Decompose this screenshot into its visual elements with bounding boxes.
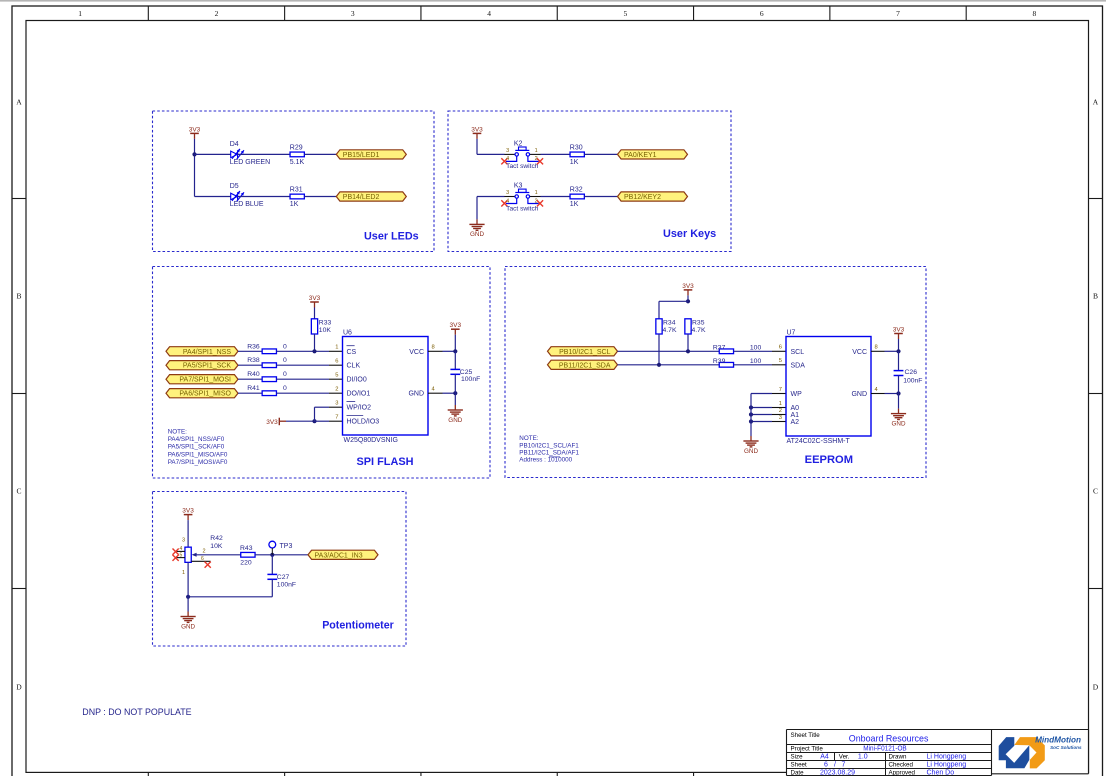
svg-text:1: 1 — [535, 148, 538, 154]
svg-text:GND: GND — [744, 448, 758, 455]
svg-text:User LEDs: User LEDs — [364, 231, 419, 243]
svg-text:PA7/SPI1_MOSI/AF0: PA7/SPI1_MOSI/AF0 — [168, 459, 228, 466]
svg-text:R35: R35 — [692, 320, 705, 327]
svg-text:GND: GND — [448, 417, 462, 424]
svg-text:5: 5 — [624, 9, 628, 18]
svg-text:Tact switch: Tact switch — [506, 205, 539, 212]
svg-text:LED BLUE: LED BLUE — [230, 201, 264, 208]
svg-text:D5: D5 — [230, 183, 239, 190]
svg-text:GND: GND — [181, 623, 195, 630]
svg-text:PB15/LED1: PB15/LED1 — [343, 152, 380, 159]
svg-text:100: 100 — [750, 344, 762, 351]
svg-text:Address : 1010000: Address : 1010000 — [519, 456, 572, 463]
svg-text:3: 3 — [351, 9, 355, 18]
svg-text:VCC: VCC — [852, 349, 867, 356]
svg-text:PB14/LED2: PB14/LED2 — [343, 194, 380, 201]
svg-text:SCL: SCL — [791, 349, 805, 356]
svg-text:PB12/KEY2: PB12/KEY2 — [624, 194, 661, 201]
svg-text:6: 6 — [824, 762, 828, 769]
svg-text:PB11/I2C1_SDA: PB11/I2C1_SDA — [559, 362, 611, 369]
svg-text:R31: R31 — [290, 187, 303, 194]
svg-text:3: 3 — [506, 148, 509, 154]
svg-text:U6: U6 — [343, 329, 352, 336]
svg-text:TP3: TP3 — [280, 543, 293, 550]
svg-text:EEPROM: EEPROM — [805, 454, 853, 466]
svg-text:A4: A4 — [820, 753, 829, 760]
svg-text:7: 7 — [779, 387, 782, 393]
svg-text:3: 3 — [506, 190, 509, 196]
svg-text:LED GREEN: LED GREEN — [230, 159, 270, 166]
svg-text:A: A — [16, 98, 22, 107]
svg-text:PA4/SPI1_NSS/AF0: PA4/SPI1_NSS/AF0 — [168, 436, 225, 443]
svg-text:K2: K2 — [514, 141, 523, 148]
svg-text:7: 7 — [335, 415, 338, 421]
svg-text:3V3: 3V3 — [189, 126, 201, 133]
svg-text:1K: 1K — [570, 201, 579, 208]
svg-text:MindMotion: MindMotion — [1035, 735, 1081, 744]
svg-text:6: 6 — [760, 9, 764, 18]
svg-text:4: 4 — [180, 546, 183, 552]
svg-text:A0: A0 — [791, 405, 800, 412]
svg-text:Sheet Title: Sheet Title — [791, 732, 821, 739]
svg-text:/: / — [834, 762, 836, 769]
svg-text:5: 5 — [180, 552, 183, 558]
svg-text:R32: R32 — [570, 187, 583, 194]
svg-text:2: 2 — [779, 408, 782, 414]
svg-text:8: 8 — [875, 345, 878, 351]
svg-text:PB11/I2C1_SDA/AF1: PB11/I2C1_SDA/AF1 — [519, 449, 579, 456]
svg-text:3V3: 3V3 — [182, 508, 194, 515]
svg-text:220: 220 — [240, 560, 252, 567]
svg-text:5: 5 — [779, 358, 782, 364]
svg-text:NOTE:: NOTE: — [168, 428, 187, 435]
svg-text:Date: Date — [791, 769, 805, 776]
svg-text:100nF: 100nF — [461, 376, 480, 383]
svg-text:100nF: 100nF — [277, 581, 296, 588]
svg-text:R41: R41 — [247, 385, 260, 392]
svg-text:10K: 10K — [210, 543, 223, 550]
svg-text:2023.08.29: 2023.08.29 — [820, 769, 855, 776]
svg-text:1K: 1K — [290, 201, 299, 208]
svg-text:8: 8 — [432, 345, 435, 351]
svg-text:U7: U7 — [787, 329, 796, 336]
svg-text:SoC Solutions: SoC Solutions — [1050, 745, 1082, 750]
svg-text:Potentiometer: Potentiometer — [322, 620, 394, 632]
svg-text:Drawn: Drawn — [889, 753, 907, 760]
svg-text:R29: R29 — [290, 144, 303, 151]
svg-text:2: 2 — [215, 9, 219, 18]
svg-text:6: 6 — [779, 345, 782, 351]
svg-text:Approved: Approved — [889, 769, 916, 776]
svg-text:7: 7 — [842, 762, 846, 769]
svg-text:Li Hongpeng: Li Hongpeng — [927, 753, 967, 760]
svg-text:PA3/ADC1_IN3: PA3/ADC1_IN3 — [315, 552, 363, 559]
svg-text:10K: 10K — [319, 327, 332, 334]
svg-text:AT24C02C-SSHM-T: AT24C02C-SSHM-T — [787, 438, 851, 445]
svg-text:3V3: 3V3 — [450, 322, 462, 329]
svg-text:DNP : DO NOT POPULATE: DNP : DO NOT POPULATE — [82, 707, 191, 718]
svg-text:4.7K: 4.7K — [663, 327, 677, 334]
svg-text:User Keys: User Keys — [663, 228, 716, 240]
svg-text:3: 3 — [779, 415, 782, 421]
svg-text:D: D — [1093, 683, 1099, 692]
svg-text:PA6/SPI1_MISO: PA6/SPI1_MISO — [179, 391, 231, 398]
svg-text:R36: R36 — [247, 343, 260, 350]
svg-text:DI/IO0: DI/IO0 — [347, 377, 367, 384]
svg-text:1: 1 — [335, 345, 338, 351]
svg-text:100: 100 — [750, 358, 762, 365]
svg-text:R38: R38 — [247, 357, 260, 364]
svg-text:2: 2 — [202, 548, 205, 554]
svg-text:Sheet: Sheet — [791, 762, 807, 769]
svg-text:SPI FLASH: SPI FLASH — [357, 456, 414, 468]
svg-text:WP/IO2: WP/IO2 — [347, 405, 372, 412]
svg-text:6: 6 — [335, 359, 338, 365]
svg-text:A1: A1 — [791, 412, 800, 419]
svg-text:8: 8 — [1032, 9, 1036, 18]
svg-text:DO/IO1: DO/IO1 — [347, 391, 371, 398]
svg-text:0: 0 — [283, 385, 287, 392]
svg-text:PA5/SPI1_SCK/AF0: PA5/SPI1_SCK/AF0 — [168, 444, 225, 451]
svg-text:CLK: CLK — [347, 363, 361, 370]
svg-text:C26: C26 — [905, 369, 918, 376]
svg-text:B: B — [1093, 291, 1098, 300]
svg-text:3V3: 3V3 — [682, 283, 694, 290]
svg-text:1: 1 — [182, 570, 185, 576]
svg-text:PB10/I2C1_SCL/AF1: PB10/I2C1_SCL/AF1 — [519, 442, 579, 449]
svg-text:B: B — [16, 291, 21, 300]
svg-text:PA0/KEY1: PA0/KEY1 — [624, 152, 657, 159]
svg-text:R43: R43 — [240, 545, 253, 552]
svg-text:A2: A2 — [791, 419, 800, 426]
svg-text:GND: GND — [408, 391, 424, 398]
svg-text:R33: R33 — [319, 320, 332, 327]
svg-text:3V3: 3V3 — [266, 419, 278, 426]
svg-text:0: 0 — [283, 371, 287, 378]
svg-text:6: 6 — [201, 556, 204, 562]
svg-text:C: C — [16, 487, 21, 496]
svg-text:3: 3 — [182, 537, 185, 543]
svg-text:HOLD/IO3: HOLD/IO3 — [347, 419, 380, 426]
svg-text:1K: 1K — [570, 159, 579, 166]
svg-text:GND: GND — [892, 420, 906, 427]
svg-text:1: 1 — [535, 190, 538, 196]
svg-text:GND: GND — [470, 231, 484, 238]
svg-text:0: 0 — [283, 343, 287, 350]
svg-text:2: 2 — [335, 387, 338, 393]
svg-text:Li Hongpeng: Li Hongpeng — [927, 762, 967, 769]
svg-text:PB10/I2C1_SCL: PB10/I2C1_SCL — [559, 349, 610, 356]
svg-text:Checked: Checked — [889, 762, 914, 769]
svg-text:1: 1 — [78, 9, 82, 18]
svg-text:5.1K: 5.1K — [290, 159, 305, 166]
svg-text:3V3: 3V3 — [309, 295, 321, 302]
svg-text:R40: R40 — [247, 371, 260, 378]
svg-text:R39: R39 — [713, 358, 726, 365]
svg-text:5: 5 — [335, 373, 338, 379]
svg-text:3V3: 3V3 — [893, 327, 905, 334]
svg-text:NOTE:: NOTE: — [519, 435, 538, 442]
svg-text:R37: R37 — [713, 344, 726, 351]
svg-text:4: 4 — [506, 198, 509, 204]
svg-text:PA5/SPI1_SCK: PA5/SPI1_SCK — [183, 363, 231, 370]
svg-text:C27: C27 — [277, 574, 290, 581]
svg-text:C25: C25 — [460, 369, 473, 376]
svg-text:Size: Size — [791, 753, 804, 760]
svg-text:4: 4 — [487, 9, 491, 18]
svg-text:3: 3 — [335, 401, 338, 407]
svg-text:D4: D4 — [230, 141, 239, 148]
svg-text:GND: GND — [851, 391, 867, 398]
svg-text:Tact switch: Tact switch — [506, 163, 539, 170]
svg-text:4.7K: 4.7K — [692, 327, 706, 334]
svg-text:1.0: 1.0 — [858, 753, 868, 760]
svg-text:4: 4 — [506, 156, 509, 162]
svg-text:Ver.: Ver. — [839, 753, 850, 760]
svg-text:7: 7 — [896, 9, 900, 18]
svg-text:100nF: 100nF — [903, 377, 922, 384]
svg-text:2: 2 — [535, 198, 538, 204]
svg-text:R34: R34 — [663, 320, 676, 327]
svg-text:R42: R42 — [210, 535, 223, 542]
svg-text:K3: K3 — [514, 183, 523, 190]
svg-text:CS: CS — [347, 349, 357, 356]
svg-text:Mini-F0121-OB: Mini-F0121-OB — [863, 744, 907, 753]
svg-text:1: 1 — [779, 401, 782, 407]
svg-text:WP: WP — [791, 391, 803, 398]
svg-text:D: D — [16, 683, 22, 692]
svg-text:R30: R30 — [570, 144, 583, 151]
svg-text:0: 0 — [283, 357, 287, 364]
svg-text:PA4/SPI1_NSS: PA4/SPI1_NSS — [183, 349, 231, 356]
svg-text:VCC: VCC — [409, 349, 424, 356]
svg-text:Project Title: Project Title — [791, 746, 824, 753]
svg-text:W25Q80DVSNIG: W25Q80DVSNIG — [344, 437, 398, 444]
svg-text:PA6/SPI1_MISO/AF0: PA6/SPI1_MISO/AF0 — [168, 451, 228, 458]
svg-text:SDA: SDA — [791, 362, 806, 369]
svg-text:2: 2 — [535, 156, 538, 162]
svg-text:A: A — [1093, 98, 1099, 107]
svg-text:PA7/SPI1_MOSI: PA7/SPI1_MOSI — [179, 377, 231, 384]
svg-text:C: C — [1093, 487, 1098, 496]
svg-text:3V3: 3V3 — [471, 126, 483, 133]
svg-text:Chen Do: Chen Do — [927, 769, 955, 776]
